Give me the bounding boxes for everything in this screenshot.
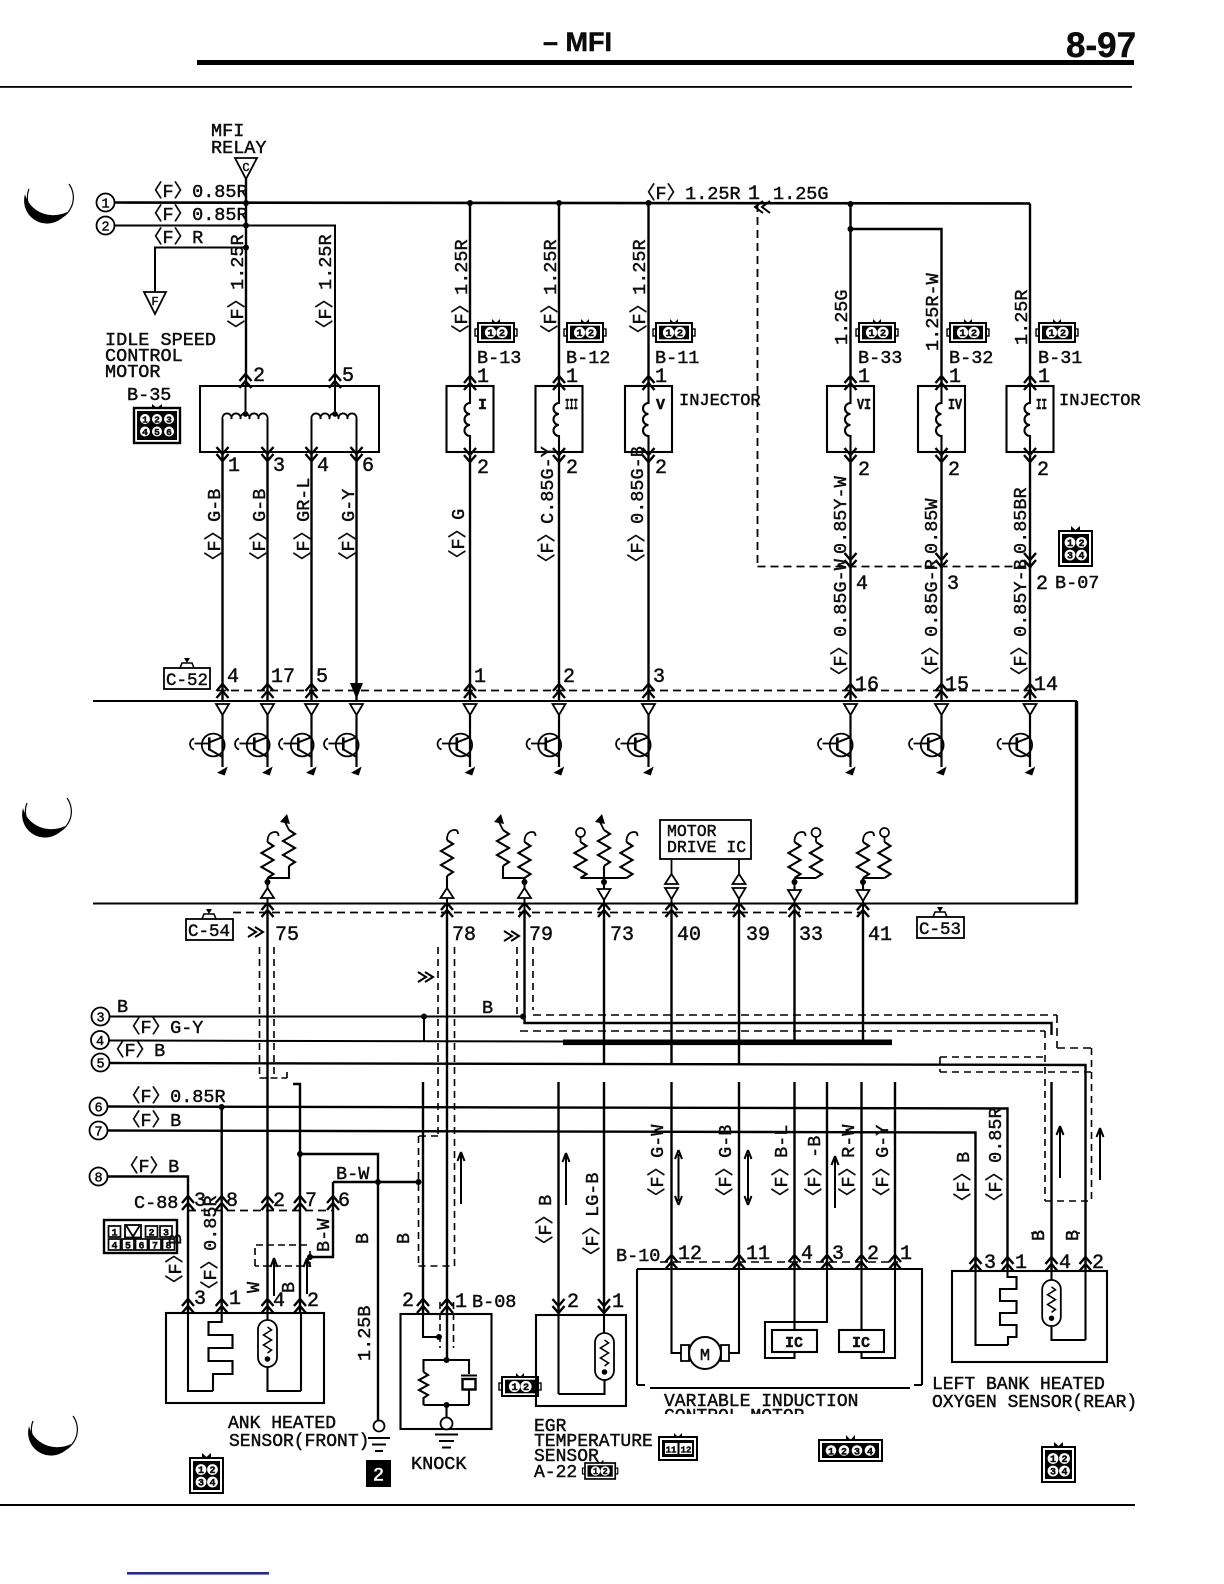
MFI relay terminal C symbol <box>235 158 257 179</box>
svg-text:2: 2 <box>253 365 265 388</box>
bottom rule <box>0 1504 1135 1506</box>
stub line3 to line4 <box>423 1017 425 1042</box>
svg-text:7: 7 <box>94 1126 102 1141</box>
wire ECU78 down to knock sensor B-08 pin1 <box>446 913 448 1361</box>
shield dashes around wire 75 <box>260 947 275 1078</box>
svg-text:1.25G: 1.25G <box>832 289 853 345</box>
resistor triple at ECU pin 73 <box>575 814 638 913</box>
injector feed B-33 1.25G <box>848 201 854 207</box>
wire B-11 pin2 down to ECU pin3 <box>647 452 649 701</box>
short stubs through line5 for 73 40 39 <box>604 1043 739 1064</box>
connector B-35 icon <box>134 404 180 443</box>
wire knock B <box>422 1082 424 1313</box>
svg-text:4: 4 <box>856 573 868 596</box>
svg-text:〈F〉0.85R: 〈F〉0.85R <box>200 1195 222 1299</box>
arrow up near tank pin4 <box>271 1258 278 1296</box>
svg-text:IC: IC <box>852 1335 870 1352</box>
svg-text:KNOCK: KNOCK <box>411 1454 467 1475</box>
svg-text:2: 2 <box>1036 573 1048 596</box>
svg-text:SENSOR(FRONT): SENSOR(FRONT) <box>229 1432 369 1452</box>
svg-text:5: 5 <box>125 1242 131 1253</box>
svg-text:15: 15 <box>945 674 969 697</box>
svg-text:B-08: B-08 <box>472 1292 516 1313</box>
KNOCK sensor box <box>401 1314 492 1429</box>
svg-text:5: 5 <box>96 1058 104 1073</box>
svg-text:2: 2 <box>307 1290 319 1313</box>
node 3 circled <box>92 1008 110 1026</box>
wire motor pin3 down <box>266 452 268 701</box>
idle speed motor box <box>200 386 379 452</box>
arrow up near tank pin2 <box>304 1258 311 1294</box>
wire C-88 pin6 <box>310 1182 333 1257</box>
O2 heater capsule <box>1042 1280 1061 1326</box>
svg-text:73: 73 <box>610 924 634 947</box>
connector C-53 label box <box>917 907 964 940</box>
injector feed B-31 1.25R <box>1029 204 1031 387</box>
svg-text:39: 39 <box>746 924 770 947</box>
injector II B-31 <box>1007 386 1054 452</box>
wire ECU39 down <box>738 913 740 1044</box>
connector B-07 icon <box>1059 526 1092 566</box>
svg-text:1.25B: 1.25B <box>355 1305 376 1361</box>
motor coil 1 <box>222 413 267 419</box>
injector IV B-32 <box>918 386 965 452</box>
svg-text:0.85Y-W: 0.85Y-W <box>831 475 852 554</box>
svg-text:4: 4 <box>227 666 239 689</box>
svg-text:11: 11 <box>666 1446 677 1456</box>
svg-text:V: V <box>656 397 665 414</box>
connector icon B-11 <box>653 319 695 342</box>
svg-text:1: 1 <box>474 666 486 689</box>
svg-text:2: 2 <box>563 666 575 689</box>
IC box 2 <box>839 1269 884 1352</box>
wire EGR pin2 from line5 <box>557 1082 559 1313</box>
motor drive IC lead pin 39 <box>738 859 740 876</box>
tank connector icon <box>190 1453 223 1493</box>
wire B-13 pin2 down to ECU pin1 <box>469 452 471 701</box>
svg-text:〈F〉G-B: 〈F〉G-B <box>204 489 226 570</box>
svg-text:8: 8 <box>226 1190 238 1213</box>
node 7 circled <box>90 1122 108 1140</box>
svg-text:〈F〉0.85R: 〈F〉0.85R <box>144 181 248 203</box>
injector feed B-11 <box>646 200 652 206</box>
dashed shield box around O2 heater wires <box>1045 1031 1092 1201</box>
svg-text:2: 2 <box>841 1447 847 1458</box>
svg-text:B-W: B-W <box>336 1164 370 1185</box>
svg-text:3: 3 <box>984 1252 996 1275</box>
wire motor pin6 down <box>355 452 357 701</box>
svg-text:4: 4 <box>273 1290 285 1313</box>
svg-text:3: 3 <box>96 1012 104 1027</box>
header thick rule <box>197 60 1134 65</box>
injector feed B-32 1.25R-W <box>848 226 854 232</box>
wire line4 <box>109 1041 565 1042</box>
injector VI B-33 <box>827 386 874 452</box>
wire B-10 pin12 <box>670 1082 672 1269</box>
wire relay feed down to idle speed motor pin 2 <box>245 203 247 386</box>
wire B-32 pin2 down 0.85W <box>940 452 942 701</box>
svg-text:B: B <box>394 1233 415 1244</box>
resistor pair at ECU pin 33 <box>788 828 822 913</box>
svg-text:4: 4 <box>317 455 329 478</box>
punch hole artifact 1 <box>27 184 73 220</box>
node 4 circled <box>91 1031 109 1049</box>
svg-text:3: 3 <box>273 455 285 478</box>
svg-text:4: 4 <box>801 1243 813 1266</box>
blue pen mark <box>127 1572 269 1575</box>
wire ECU40 down <box>670 913 672 1044</box>
knock case ground <box>441 1418 453 1430</box>
svg-text:4: 4 <box>867 1447 873 1458</box>
node 8 circled <box>90 1168 108 1186</box>
svg-text:IV: IV <box>948 397 962 414</box>
connector icon B-33 <box>856 319 898 342</box>
junction line6 to C-88 pin8 wire <box>219 1104 225 1110</box>
pin 2 entry <box>240 374 252 388</box>
knock shield stubs inside <box>440 1302 454 1348</box>
wire B-33 pin2 down 0.85Y-W <box>849 452 851 701</box>
svg-text:C-54: C-54 <box>188 922 230 942</box>
svg-text:VI: VI <box>857 397 871 414</box>
svg-text:〈F〉G-Y: 〈F〉G-Y <box>338 489 360 570</box>
svg-text:1.25R: 1.25R <box>1012 289 1033 345</box>
svg-text:6: 6 <box>338 1190 350 1213</box>
svg-text:〈F〉0.85R: 〈F〉0.85R <box>144 204 248 226</box>
wire ECU75 down to C-88 pin2 and tank sensor <box>266 913 268 1314</box>
svg-text:〈F〉B: 〈F〉B <box>165 1234 187 1293</box>
connector C-52 label box <box>164 658 210 691</box>
svg-text:3: 3 <box>194 1288 206 1311</box>
ground for 1.25B wire <box>368 1421 390 1452</box>
LEFT BANK HEATED OXYGEN SENSOR box <box>952 1271 1107 1362</box>
svg-text:〈F〉C.85G-Y: 〈F〉C.85G-Y <box>537 446 559 572</box>
svg-text:17: 17 <box>271 666 295 689</box>
svg-text:3: 3 <box>854 1447 860 1458</box>
svg-text:〈F〉1.25R: 〈F〉1.25R <box>227 234 249 338</box>
EGR thermistor capsule <box>595 1333 614 1380</box>
injector feed B-13 <box>467 200 473 206</box>
svg-text:W: W <box>244 1281 265 1293</box>
svg-text:1.25G: 1.25G <box>773 184 829 205</box>
shield dashes around wire 78 <box>438 947 455 1266</box>
svg-text:〈F〉0.85G-W: 〈F〉0.85G-W <box>830 558 852 685</box>
svg-text:DRIVE IC: DRIVE IC <box>667 838 746 857</box>
motor pin 6 exit <box>351 447 363 461</box>
svg-text:12: 12 <box>678 1243 702 1266</box>
svg-text:16: 16 <box>855 674 879 697</box>
svg-text:1: 1 <box>748 183 760 206</box>
injector V B-11 <box>625 386 672 452</box>
svg-text:III: III <box>565 397 578 414</box>
B-W wire horizontal <box>333 1181 419 1183</box>
svg-text:33: 33 <box>799 924 823 947</box>
svg-text:2: 2 <box>402 1290 414 1313</box>
svg-text:〈F〉G-B: 〈F〉G-B <box>249 489 271 570</box>
connector C-88 icon <box>104 1220 177 1253</box>
svg-text:〈F〉B: 〈F〉B <box>120 1156 179 1178</box>
svg-text:〈F〉0.85R: 〈F〉0.85R <box>122 1086 226 1108</box>
svg-text:2: 2 <box>1092 1252 1104 1275</box>
EGR pin crossing marks <box>553 1299 565 1313</box>
wire line5 (F)B to O2 pin2 <box>110 1063 1086 1271</box>
svg-text:〈F〉0.85R: 〈F〉0.85R <box>985 1107 1007 1211</box>
svg-text:2: 2 <box>867 1243 879 1266</box>
A-22 connector icon <box>582 1460 617 1479</box>
wire B-31 pin2 down 0.85BR <box>1029 452 1031 701</box>
wire B-10 pin11 <box>738 1082 740 1269</box>
svg-text:1: 1 <box>828 1447 834 1458</box>
junction to 1.25B knock ground wire <box>297 1151 303 1157</box>
svg-text:〈F〉1.25R: 〈F〉1.25R <box>315 234 337 338</box>
svg-text:INJECTOR: INJECTOR <box>679 392 761 411</box>
svg-text:6: 6 <box>94 1102 102 1117</box>
VARIABLE INDUCTION CONTROL MOTOR box <box>637 1269 922 1385</box>
line4 heavy harness section <box>563 1040 892 1046</box>
node 1 circled <box>97 194 115 212</box>
svg-text:4: 4 <box>96 1035 104 1050</box>
svg-text:1: 1 <box>1015 1252 1027 1275</box>
svg-text:41: 41 <box>868 924 892 947</box>
arrow up near O2 pin4 <box>1057 1126 1064 1178</box>
motor pin 1 exit <box>217 447 229 461</box>
motor pin 4 exit <box>306 447 318 461</box>
svg-text:3: 3 <box>832 1243 844 1266</box>
sheet ref 2 inverted <box>366 1460 391 1487</box>
svg-text:2: 2 <box>567 1291 579 1314</box>
node 5 circled <box>92 1054 110 1072</box>
connector icon B-32 <box>947 319 989 342</box>
connector icon 1234 <box>819 1435 882 1461</box>
wire ECU79 down and right to O2 sensor <box>525 913 1052 1036</box>
tank heater capsule <box>258 1320 277 1367</box>
svg-text:2: 2 <box>273 1190 285 1213</box>
svg-text:1: 1 <box>228 455 240 478</box>
induction motor M <box>672 1269 740 1369</box>
svg-text:2: 2 <box>948 459 960 482</box>
svg-text:〈F〉B: 〈F〉B <box>106 1040 165 1062</box>
wire bus 2 (F)0.85R <box>115 226 336 387</box>
svg-text:I: I <box>478 397 487 414</box>
svg-text:B: B <box>117 997 128 1018</box>
wire from relay C down <box>245 179 247 203</box>
arrow up inside knock shield <box>458 1152 465 1204</box>
wire B-10 pin3 <box>826 1082 828 1269</box>
injector I B-13 <box>447 386 494 452</box>
wire B-12 pin2 down to ECU pin2 <box>558 452 560 701</box>
svg-text:ANK HEATED: ANK HEATED <box>228 1414 336 1434</box>
svg-text:1: 1 <box>612 1291 624 1314</box>
wire O2 pin4 from shield <box>1050 1082 1052 1271</box>
svg-text:1.25R-W: 1.25R-W <box>923 272 944 351</box>
connector icon B-12 <box>564 319 606 342</box>
svg-text:B-W: B-W <box>314 1218 335 1252</box>
IC box 1 <box>772 1269 817 1352</box>
svg-text:〈F〉-B: 〈F〉-B <box>804 1136 826 1206</box>
svg-text:7: 7 <box>305 1190 317 1213</box>
svg-text:0.85BR: 0.85BR <box>1011 487 1032 554</box>
svg-text:〈F〉LG-B: 〈F〉LG-B <box>582 1172 604 1265</box>
tank pin crossing marks <box>182 1299 194 1313</box>
knock wire2 internal <box>423 1313 439 1337</box>
svg-text:RELAY: RELAY <box>211 138 267 159</box>
svg-text:〈F〉0.85G-B: 〈F〉0.85G-B <box>627 446 649 572</box>
svg-text:12: 12 <box>681 1446 692 1456</box>
motor coil 2 <box>311 413 356 419</box>
wire B-10 pin4 <box>793 1082 795 1269</box>
svg-text:5: 5 <box>342 365 354 388</box>
dashed shield running right upper <box>533 1015 1092 1048</box>
header thin rule <box>0 86 1132 88</box>
svg-text:OXYGEN SENSOR(REAR): OXYGEN SENSOR(REAR) <box>932 1393 1137 1413</box>
ECU box top edge <box>93 700 1077 702</box>
svg-text:〈F〉GR-L: 〈F〉GR-L <box>293 477 315 570</box>
double arrow near pin11 <box>745 1150 752 1205</box>
resistor pair at ECU pin 41 <box>857 828 891 913</box>
svg-text:40: 40 <box>677 924 701 947</box>
small dashed shield box below C-88 <box>255 1245 310 1266</box>
wire B-10 pin2 <box>860 1082 862 1269</box>
connector B-07 dashed line <box>758 566 1033 568</box>
svg-text:6: 6 <box>362 455 374 478</box>
svg-text:C: C <box>242 161 249 175</box>
dashed shield pair mid right <box>940 1057 1092 1072</box>
svg-text:2: 2 <box>148 1229 154 1240</box>
pull-up resistor pair at ECU pin 75 <box>261 814 295 913</box>
EGR TEMPERATURE SENSOR box <box>536 1315 626 1406</box>
svg-text:〈F〉B: 〈F〉B <box>535 1195 557 1254</box>
svg-text:B-10: B-10 <box>616 1246 660 1267</box>
svg-text:〈F〉1.25R: 〈F〉1.25R <box>637 183 741 205</box>
punch hole artifact 3 <box>31 1416 77 1452</box>
wire motor pin1 down <box>221 452 223 701</box>
knock connector icon <box>499 1373 541 1396</box>
svg-text:1: 1 <box>111 1229 117 1240</box>
svg-text:5: 5 <box>316 666 328 689</box>
svg-text:〈F〉1.25R: 〈F〉1.25R <box>451 239 473 343</box>
crossing marks at C-88 <box>182 1196 194 1210</box>
svg-text:C-88: C-88 <box>134 1193 178 1214</box>
svg-text:B-07: B-07 <box>1055 573 1099 594</box>
svg-text:〈F〉B: 〈F〉B <box>953 1152 975 1211</box>
svg-text:79: 79 <box>529 924 553 947</box>
svg-text:〈F〉G-Y: 〈F〉G-Y <box>872 1125 894 1206</box>
O2 pin crossing marks <box>970 1257 982 1271</box>
svg-text:8: 8 <box>94 1172 102 1187</box>
fusible link F symbol <box>144 292 166 314</box>
wire line6 (F)0.85R to O2 pin1 <box>108 1107 1008 1272</box>
svg-text:6: 6 <box>138 1242 144 1253</box>
arrow up near pin2 <box>832 1156 839 1208</box>
svg-text:78: 78 <box>452 924 476 947</box>
svg-text:2: 2 <box>477 457 489 480</box>
svg-text:7: 7 <box>152 1242 158 1253</box>
motor drive IC lead pin 40 <box>671 859 673 876</box>
svg-text:B: B <box>1063 1230 1084 1241</box>
svg-text:II: II <box>1036 397 1047 414</box>
single resistor at ECU pin 78 <box>441 830 459 913</box>
svg-text:2: 2 <box>372 1465 384 1488</box>
svg-text:〈F〉B: 〈F〉B <box>122 1110 181 1132</box>
svg-text:C-52: C-52 <box>166 671 208 691</box>
ECU box right edge <box>1075 701 1078 904</box>
wire ECU41 down <box>862 913 864 1044</box>
motor pin 3 exit <box>262 447 274 461</box>
svg-text:14: 14 <box>1034 674 1058 697</box>
svg-text:MOTOR: MOTOR <box>105 362 161 383</box>
svg-text:INJECTOR: INJECTOR <box>1059 392 1141 411</box>
svg-text:8-97: 8-97 <box>1066 26 1136 65</box>
svg-text:〈F〉R-W: 〈F〉R-W <box>838 1124 860 1206</box>
knock RC network <box>444 1357 450 1363</box>
junction dots on relay feed <box>243 200 249 206</box>
dashed shield running right lower <box>520 1030 1045 1032</box>
svg-text:4: 4 <box>111 1242 117 1253</box>
connector icon B-13 <box>475 319 517 342</box>
svg-text:4: 4 <box>1059 1252 1071 1275</box>
svg-text:C-53: C-53 <box>919 920 961 940</box>
svg-text:– MFI: – MFI <box>543 27 612 57</box>
svg-text:1: 1 <box>229 1288 241 1311</box>
dashed stubs at O2 box top <box>1031 1232 1080 1234</box>
svg-text:2: 2 <box>566 457 578 480</box>
crossing marks at ECU line <box>217 684 229 698</box>
svg-text:M: M <box>700 1347 710 1366</box>
svg-text:〈F〉0.85Y-B: 〈F〉0.85Y-B <box>1010 559 1032 685</box>
wire ECU73 down <box>603 913 605 1044</box>
svg-text:B: B <box>1029 1230 1050 1241</box>
svg-text:〈F〉G-W: 〈F〉G-W <box>647 1124 669 1206</box>
svg-text:1: 1 <box>101 198 109 213</box>
wire line7 (F)B to O2 pin3 <box>108 1131 976 1272</box>
wire B-10 pin1 <box>894 1082 896 1269</box>
svg-text:F: F <box>151 295 158 309</box>
O2 connector icon <box>1042 1442 1075 1482</box>
svg-text:〈F〉1.25R: 〈F〉1.25R <box>629 239 651 343</box>
wire (F)0.85R down to C-88 pin8 and tank pin1 <box>220 1107 222 1313</box>
splice marker below pin 78 <box>418 972 433 982</box>
wire motor pin4 down <box>310 452 312 701</box>
svg-text:〈F〉G-Y: 〈F〉G-Y <box>122 1017 203 1039</box>
svg-text:75: 75 <box>275 924 299 947</box>
svg-text:〈F〉0.85G-R: 〈F〉0.85G-R <box>921 559 943 685</box>
punch hole artifact 2 <box>25 798 71 834</box>
O2 sensing element meander <box>976 1271 1009 1345</box>
solid arrow mark wire 6 <box>350 683 363 699</box>
svg-text:〈F〉G: 〈F〉G <box>448 509 470 568</box>
double arrow near pin12 <box>675 1150 682 1205</box>
wire line8 to C-88 pin3 <box>108 1177 189 1314</box>
svg-text:B: B <box>482 998 493 1019</box>
wire C-88 pin7 start below shield <box>293 1084 300 1313</box>
injector feed B-12 <box>556 200 562 206</box>
svg-text:B: B <box>353 1233 374 1244</box>
svg-text:2: 2 <box>101 221 109 236</box>
ECU connector dashed line <box>218 690 1032 692</box>
connector icon B-31 <box>1036 319 1078 342</box>
svg-text:B-35: B-35 <box>127 385 171 406</box>
resistor pair at ECU pin 79 <box>494 814 536 913</box>
svg-text:〈F〉1.25R: 〈F〉1.25R <box>540 239 562 343</box>
wire ECU33 down <box>793 913 795 1044</box>
node 2 circled <box>97 217 115 235</box>
wire line3 B <box>110 1016 524 1018</box>
tank thermistor meander <box>188 1313 213 1391</box>
ECU box bottom edge <box>93 903 1078 905</box>
input triangles and transistors Q1-Q10 <box>190 704 1036 776</box>
wire bus 1 (F)0.85R <box>115 203 1031 204</box>
svg-text:〈F〉G-B: 〈F〉G-B <box>715 1125 737 1206</box>
splice marker at pin 75 <box>248 927 263 937</box>
